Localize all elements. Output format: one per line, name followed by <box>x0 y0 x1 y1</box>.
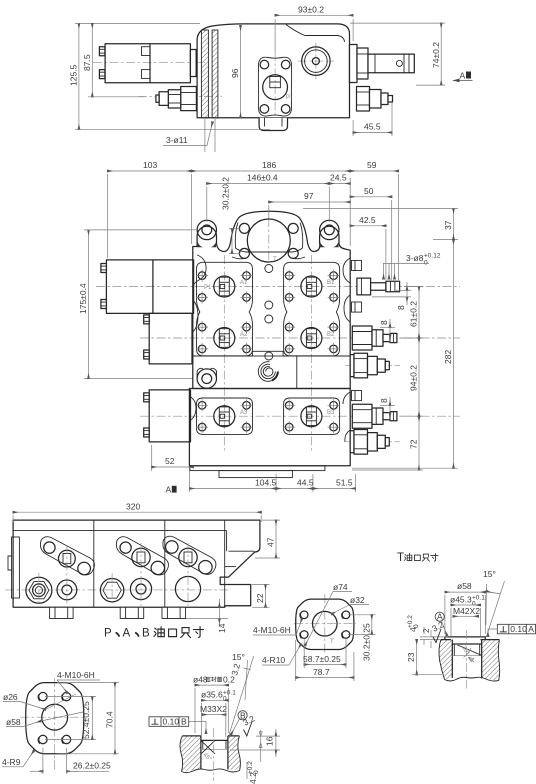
svg-text:A: A <box>166 485 172 495</box>
port A3 <box>196 399 252 433</box>
pilot bolt tab 1 <box>99 47 105 56</box>
svg-text:0.2: 0.2 <box>223 675 235 685</box>
lever pin <box>396 60 402 66</box>
svg-text:16: 16 <box>265 736 275 746</box>
svg-text:B1: B1 <box>327 280 335 286</box>
svg-text:0: 0 <box>223 696 227 703</box>
svg-text:A: A <box>460 71 466 81</box>
dim 282 <box>453 240 455 469</box>
body chamfer edge <box>286 25 345 43</box>
datum A circle <box>435 612 444 621</box>
chamfer cross <box>201 740 215 754</box>
pilot block 2 <box>149 313 192 364</box>
svg-text:50: 50 <box>364 186 374 196</box>
ear top-left <box>197 220 216 239</box>
upper body outline <box>193 211 350 388</box>
centerline boss <box>298 60 334 62</box>
ear bottom-left <box>197 369 216 388</box>
GDT frame <box>149 717 206 734</box>
svg-text:4-M10-6H: 4-M10-6H <box>253 625 291 635</box>
svg-text:103: 103 <box>143 160 157 170</box>
dim 104.5 <box>189 488 276 490</box>
dim 74±0.2 <box>440 23 442 85</box>
lower body contour waves <box>189 392 350 442</box>
dim 70.4 <box>114 683 116 754</box>
svg-text:52: 52 <box>165 456 175 466</box>
bottom recess of upper body <box>252 351 283 356</box>
pilot bolt tab 2 <box>99 70 105 79</box>
boss rail column B lower <box>284 398 340 434</box>
main body outline <box>197 24 349 118</box>
dim 45.5 <box>353 132 392 134</box>
port B1 <box>283 270 339 304</box>
svg-text:ø58: ø58 <box>6 717 21 727</box>
svg-text:44.5: 44.5 <box>297 478 314 488</box>
svg-text:125.5: 125.5 <box>69 64 79 86</box>
T port circle <box>247 219 290 262</box>
svg-text:T: T <box>397 552 404 564</box>
relief cartridge row2 <box>352 326 397 350</box>
top boss circles <box>302 47 330 75</box>
dim 97 <box>269 201 350 203</box>
center line <box>213 728 215 781</box>
svg-text:30.2±0.25: 30.2±0.25 <box>362 623 372 661</box>
dim 22 <box>265 585 267 608</box>
centerline <box>465 630 467 689</box>
dim 52 <box>152 466 194 468</box>
dim 47 <box>275 520 277 558</box>
bolts 4-M10 <box>38 692 71 744</box>
spool end row1 <box>357 278 400 295</box>
svg-text:+0.12: +0.12 <box>424 253 441 260</box>
datum B circle <box>238 711 247 720</box>
relief cartridge row3 <box>352 404 397 428</box>
right clevis blocks <box>350 45 358 83</box>
centerline relief axis <box>138 96 222 98</box>
P port flange blob <box>258 57 291 116</box>
dim 175±0.4 <box>88 230 90 379</box>
svg-text:M42X2: M42X2 <box>453 606 480 616</box>
dim 24.5 <box>329 183 350 185</box>
svg-text:0.10: 0.10 <box>163 717 180 727</box>
svg-text:61±0.2: 61±0.2 <box>409 301 419 327</box>
dim 125.5 <box>78 23 80 129</box>
T flange centerlines <box>294 623 356 625</box>
bottom break wavy <box>182 769 240 773</box>
thread run-out diagonal <box>458 645 483 656</box>
pilot actuator body <box>105 44 190 83</box>
svg-text:45.5: 45.5 <box>364 122 381 132</box>
dim 16 <box>275 736 277 750</box>
T bolts <box>300 611 350 639</box>
bottom break wavy <box>445 677 499 681</box>
lower body center tab <box>219 471 292 478</box>
bottom row: hex plug <box>26 577 52 603</box>
svg-text:97: 97 <box>304 191 314 201</box>
svg-text:ø35.6: ø35.6 <box>201 690 223 700</box>
dim 146±0.4 <box>207 183 329 185</box>
mount plate hatched strip 2 <box>212 30 218 118</box>
blob3 circles <box>166 541 178 553</box>
svg-text:186: 186 <box>262 160 276 170</box>
dim 30.2±0.2 vertical <box>231 228 233 253</box>
svg-text:ø74: ø74 <box>333 582 348 592</box>
svg-text:3-ø8: 3-ø8 <box>406 253 424 263</box>
dim 50 <box>350 196 392 198</box>
lower body step plate <box>190 466 325 471</box>
svg-text:14: 14 <box>217 623 227 633</box>
step lines right <box>224 520 226 607</box>
dim 8 row3 <box>389 406 391 413</box>
svg-text:320: 320 <box>126 502 140 512</box>
centerlines <box>20 716 86 718</box>
port A2 <box>196 321 252 355</box>
svg-text:A: A <box>528 624 534 634</box>
bore <box>452 640 481 679</box>
svg-text:4-R10: 4-R10 <box>262 655 285 665</box>
right relief valve hexes (top view) <box>357 87 370 112</box>
svg-text:146±0.4: 146±0.4 <box>247 173 278 183</box>
centerline bottom row <box>5 589 230 591</box>
svg-text:T: T <box>330 639 334 645</box>
section outline <box>182 735 239 737</box>
svg-text:26.2±0.25: 26.2±0.25 <box>73 761 111 771</box>
svg-text:P: P <box>104 628 112 640</box>
svg-text:78.7: 78.7 <box>313 667 330 677</box>
svg-text:ø32: ø32 <box>350 595 365 605</box>
section joints <box>93 520 95 607</box>
ear centerline extension left <box>84 378 193 380</box>
boss rail column B upper <box>284 262 340 356</box>
section surface <box>441 639 500 641</box>
dim 87.5 <box>91 23 93 96</box>
pilot divider <box>149 44 151 83</box>
centerline pilot axis <box>93 62 205 64</box>
blob 1 outline <box>40 537 94 575</box>
svg-text:52.4±0.25: 52.4±0.25 <box>81 701 91 739</box>
big relief 2 <box>350 430 389 455</box>
svg-text:72: 72 <box>409 439 419 449</box>
T center hole Ø32 <box>313 611 338 636</box>
svg-text:A3: A3 <box>240 410 248 416</box>
svg-text:94±0.2: 94±0.2 <box>409 365 419 391</box>
vertical centerlines <box>38 573 40 606</box>
blob 3 outline <box>163 536 216 574</box>
body outline <box>13 520 260 607</box>
svg-text:4-R9: 4-R9 <box>2 757 21 767</box>
centerline row2 <box>140 337 460 339</box>
svg-text:175±0.4: 175±0.4 <box>78 283 88 314</box>
svg-text:A2: A2 <box>240 332 248 338</box>
bottom row c5 (B) <box>175 576 200 601</box>
T flange bolts <box>239 223 249 233</box>
T boss inner contours <box>235 223 302 253</box>
casting contour waves <box>193 255 350 332</box>
svg-text:ø48: ø48 <box>193 675 208 685</box>
svg-text:ø26: ø26 <box>3 692 18 702</box>
15 deg lines <box>229 656 254 736</box>
dim 96 <box>240 26 242 118</box>
centerline column B <box>310 255 312 452</box>
dim 23 <box>416 640 418 675</box>
wavy edges <box>439 640 500 681</box>
svg-text:8: 8 <box>379 320 389 325</box>
P window <box>270 77 281 88</box>
svg-text:T: T <box>273 257 277 263</box>
dim 8 row1 <box>406 290 408 297</box>
svg-text:0: 0 <box>413 624 420 628</box>
dim 8 row2 <box>389 327 391 334</box>
bottom row c4 <box>130 578 151 599</box>
svg-text:15°: 15° <box>232 652 245 662</box>
svg-text:0: 0 <box>253 770 260 774</box>
GDT frame A <box>488 624 536 636</box>
svg-text:51.5: 51.5 <box>336 478 353 488</box>
svg-text:93±0.2: 93±0.2 <box>298 5 324 15</box>
centerline big relief 2 <box>345 441 400 443</box>
svg-text:0: 0 <box>424 260 428 267</box>
svg-text:ø45.3: ø45.3 <box>450 595 472 605</box>
svg-text:282: 282 <box>443 350 453 364</box>
small center tie-rod holes <box>265 265 273 273</box>
spring housing neck <box>190 50 196 77</box>
bottom row c2 <box>57 580 77 600</box>
bottom tab bracket <box>259 118 287 131</box>
port A1 <box>196 270 252 304</box>
dim 52.4±0.25 <box>91 697 93 740</box>
svg-text:47: 47 <box>266 537 276 547</box>
svg-text:23: 23 <box>406 652 416 662</box>
svg-text:B: B <box>142 628 150 640</box>
svg-text:ø58: ø58 <box>457 581 472 591</box>
flange outline <box>26 683 84 754</box>
centerline column A <box>223 255 225 452</box>
dim 37 <box>453 209 455 240</box>
dim 78.7 <box>296 677 354 679</box>
centerline big relief 1 <box>345 365 400 367</box>
svg-text:A: A <box>123 628 131 640</box>
dim 320 <box>13 511 261 513</box>
svg-text:59: 59 <box>367 160 377 170</box>
svg-text:24.5: 24.5 <box>330 173 347 183</box>
port B2 <box>283 321 339 355</box>
lever arm <box>368 54 414 73</box>
big relief 1 <box>350 353 389 378</box>
svg-text:B: B <box>181 717 187 727</box>
svg-text:42.5: 42.5 <box>359 215 376 225</box>
svg-text:104.5: 104.5 <box>255 478 277 488</box>
svg-text:37: 37 <box>443 220 453 230</box>
left relief valve hexes <box>181 87 197 111</box>
dim 14 <box>218 607 220 618</box>
spot face lip <box>445 637 485 640</box>
centerline T vertical <box>268 218 270 262</box>
dim 51.5 <box>313 488 356 490</box>
15 deg lines <box>486 581 504 637</box>
pilot inner tabs <box>142 47 151 56</box>
left end plate <box>12 537 20 598</box>
svg-text:B3: B3 <box>327 410 335 416</box>
dim 42.5 <box>350 225 386 227</box>
svg-text:2: 2 <box>421 628 431 633</box>
dim 58.7±0.25 <box>304 664 346 666</box>
P port circle <box>263 75 288 100</box>
svg-text:A1: A1 <box>240 280 248 286</box>
dim 186 <box>192 170 351 172</box>
caption P A B oil port dims <box>104 627 204 640</box>
port B3 <box>283 399 339 433</box>
ear top-right <box>320 220 339 239</box>
aux small depth dim <box>260 730 262 762</box>
caption T oil port dims <box>397 552 438 564</box>
svg-text:58.7±0.25: 58.7±0.25 <box>303 654 341 664</box>
dim 59 <box>350 170 398 172</box>
pilot block 3 <box>149 390 190 442</box>
dim 103 <box>108 170 192 172</box>
hatched block left <box>180 736 201 772</box>
bottom row c3 (P) <box>100 579 123 602</box>
svg-text:4-M10-6H: 4-M10-6H <box>57 670 95 680</box>
centerline P port vertical <box>274 52 276 122</box>
hatched right <box>482 640 500 681</box>
dim 30.2±0.25 <box>371 615 373 635</box>
svg-text:87.5: 87.5 <box>82 54 92 71</box>
lower body outline <box>189 389 350 466</box>
svg-text:3-ø11: 3-ø11 <box>166 135 188 145</box>
right face cover bolts <box>352 260 362 270</box>
dim 61±0.2 <box>418 287 420 339</box>
joint line <box>296 356 298 389</box>
dim 26.2±0.25 <box>30 770 43 772</box>
svg-text:M33X2: M33X2 <box>200 704 227 714</box>
dim 4.2 <box>246 762 248 779</box>
centerline row1 <box>96 286 460 288</box>
blob 2 outline <box>116 537 168 575</box>
svg-text:8: 8 <box>379 398 389 403</box>
svg-text:15°: 15° <box>483 569 496 579</box>
blob1 circles <box>44 542 55 553</box>
centerline row3 <box>140 415 460 417</box>
svg-text:30.2±0.2: 30.2±0.2 <box>221 177 231 210</box>
svg-text:B2: B2 <box>327 332 335 338</box>
hatched block right <box>228 736 241 771</box>
blob2 circles <box>120 542 131 553</box>
boss rail column A lower <box>197 398 253 434</box>
center hole Ø26 <box>42 704 68 730</box>
boss rail column A upper <box>197 262 253 356</box>
bore walls <box>201 736 228 770</box>
dim 72 <box>418 416 420 470</box>
svg-text:P: P <box>286 95 290 101</box>
feet <box>50 607 186 618</box>
svg-text:96: 96 <box>230 68 240 78</box>
dim 94±0.2 <box>418 338 420 416</box>
svg-text:P1: P1 <box>204 285 212 291</box>
svg-text:74±0.2: 74±0.2 <box>431 42 441 68</box>
dim 93±0.2 <box>275 14 353 16</box>
dim 44.5 <box>276 488 313 490</box>
P bolts <box>260 60 269 69</box>
mount plate hatched strip 1 <box>201 30 208 118</box>
svg-text:22: 22 <box>255 593 265 603</box>
hatched left <box>439 640 452 680</box>
T flange outline <box>296 599 354 649</box>
pilot block 1 <box>106 260 193 314</box>
ear base fillets <box>198 242 217 247</box>
svg-text:0.10: 0.10 <box>510 624 527 634</box>
swirl logo <box>258 362 278 382</box>
svg-text:8: 8 <box>396 305 406 310</box>
svg-text:70.4: 70.4 <box>105 711 115 728</box>
